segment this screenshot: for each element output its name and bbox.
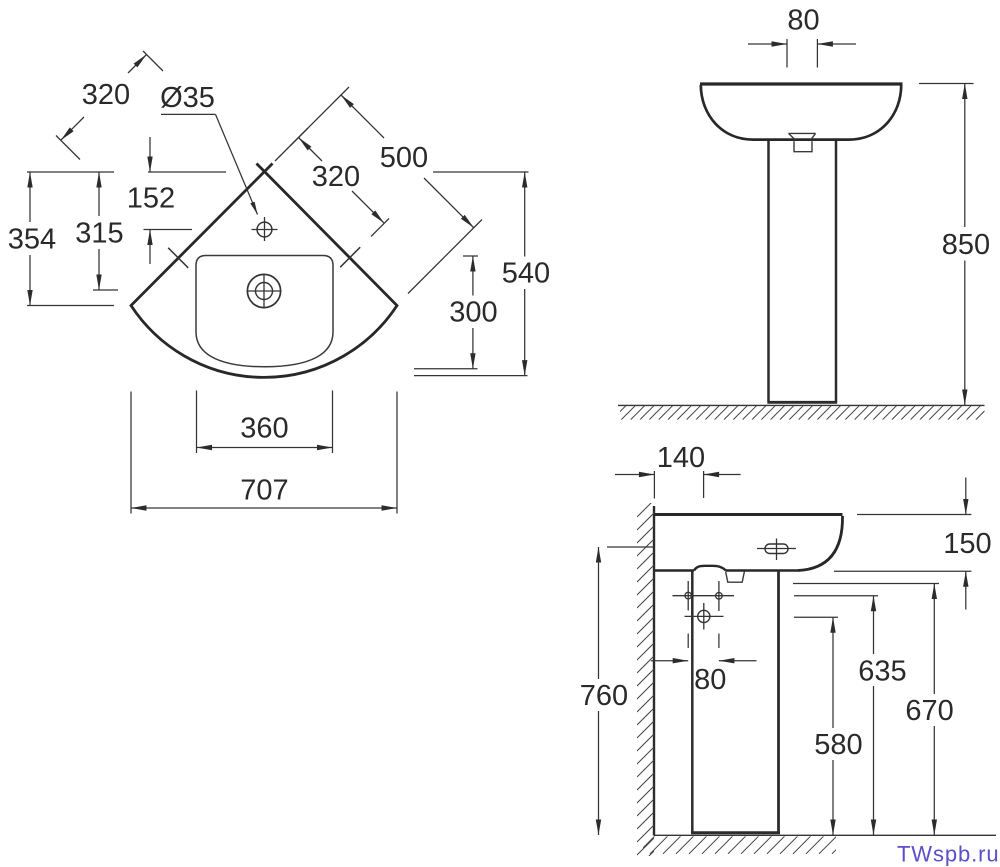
dimension 150 arrows — [963, 478, 968, 610]
witness line at apex level (mid, for 152) — [148, 171, 226, 173]
svg-text:707: 707 — [240, 475, 288, 507]
dimension 320 left: witness tick near bottom — [56, 136, 80, 160]
side view: drain hole crosshair — [685, 603, 724, 630]
side view: floor line — [654, 834, 996, 836]
top view: drain hole crosshair — [247, 274, 282, 309]
side view: fixing hole 2 — [716, 581, 723, 611]
svg-text:540: 540 — [502, 258, 550, 290]
dimension 360 line+arrows — [197, 445, 333, 450]
svg-text:152: 152 — [127, 183, 175, 215]
dimension 140: arrows — [615, 472, 741, 477]
dimension 80 front: witness lines — [787, 39, 817, 68]
side view: underside hump (overflow) — [694, 566, 726, 571]
dimension 670: top witness — [793, 583, 939, 585]
side view: faucet hole crosshair — [757, 539, 796, 561]
front view: floor hatching — [612, 406, 990, 420]
front view: basin bowl profile — [701, 85, 901, 140]
svg-text:760: 760 — [580, 680, 628, 712]
front view: pedestal bottom edge — [767, 401, 837, 404]
front view: drain outlet box — [794, 141, 812, 151]
dimension 80 front: arrows — [748, 41, 856, 46]
dimension 635 line+arrows — [871, 596, 876, 835]
dimension 540: top witness — [433, 171, 529, 173]
side view: floor hatching — [637, 836, 850, 854]
side view: fixing hole 1 — [685, 581, 692, 611]
leader Ø35 line — [161, 114, 258, 214]
svg-text:500: 500 — [380, 142, 428, 174]
dimension 320 left: witness tick near top — [143, 51, 163, 71]
dimension 850: top witness — [919, 83, 974, 85]
dimension 320 right: witness tick bottom — [371, 219, 389, 237]
dimension 760: top witness — [607, 546, 654, 548]
dimension 320 right: witness tick top — [290, 128, 308, 146]
svg-text:300: 300 — [449, 297, 497, 329]
side view: basin underside right — [726, 569, 799, 572]
witness line at left corner level — [27, 305, 114, 307]
side view: basin underside left — [654, 569, 694, 572]
dimension 760 line+arrows — [596, 547, 601, 835]
dimension 150: top witness — [857, 514, 971, 516]
side view: basin top surface — [654, 513, 843, 516]
svg-text:320: 320 — [312, 161, 360, 193]
front view: floor line — [618, 404, 985, 406]
dimension 150: bottom witness — [834, 570, 971, 572]
front view: pedestal right edge — [835, 141, 838, 402]
side view: basin right profile — [798, 516, 843, 571]
dimension 580: top witness — [794, 616, 838, 618]
dimension 707: right witness — [396, 392, 398, 514]
top view: faucet hole crosshair — [252, 217, 278, 241]
dimension 500: witness from apex — [275, 87, 349, 161]
dimension 300: bottom witness — [414, 368, 478, 370]
top view: inner basin outline — [196, 256, 333, 367]
dimension 540: bottom witness — [414, 375, 528, 377]
side view: pedestal back edge — [691, 571, 694, 833]
dimension 670 line+arrows — [932, 584, 937, 836]
side view: wall line — [653, 506, 655, 836]
dimension 635: top witness — [794, 595, 878, 597]
front view: basin top edge — [700, 82, 903, 85]
front view: pedestal left edge — [767, 141, 770, 402]
dimension 315 line+arrows — [96, 172, 101, 290]
side view: drain fitting trapezoid — [726, 572, 745, 583]
dimension 360: left witness — [196, 391, 198, 454]
svg-text:850: 850 — [942, 229, 990, 261]
dimension 320 right line+arrows — [299, 138, 385, 224]
dimension 80 side: witness lines — [688, 634, 719, 649]
svg-text:360: 360 — [240, 413, 288, 445]
svg-text:150: 150 — [943, 528, 991, 560]
witness line at drain level (315) — [93, 289, 118, 291]
dimension 300 line+arrows — [470, 256, 475, 369]
svg-text:354: 354 — [8, 224, 56, 256]
dimension 580 line+arrows — [830, 617, 835, 835]
dimension 850 line+arrows — [962, 84, 967, 406]
dimension 354 line+arrows — [27, 172, 32, 306]
top view: tick on left rim (320 mark) — [168, 248, 188, 268]
dimension 500: witness from right corner — [408, 220, 482, 294]
dimension 80 side: arrows — [651, 658, 757, 663]
svg-text:80: 80 — [787, 5, 819, 37]
svg-text:635: 635 — [858, 655, 906, 687]
dimension 152 arrows — [147, 137, 152, 264]
svg-text:580: 580 — [814, 729, 862, 761]
dimension 500 line+arrows — [341, 95, 474, 228]
dimension 360: right witness — [332, 391, 334, 454]
svg-text:320: 320 — [82, 79, 130, 111]
dimension 707: left witness — [130, 392, 132, 514]
dimension 707 line+arrows — [131, 505, 397, 510]
side view: pedestal front edge — [777, 571, 780, 833]
top view: tick on right rim (320 mark) — [340, 247, 360, 267]
front view: drain fitting trapezoid — [789, 133, 816, 139]
svg-text:670: 670 — [905, 695, 953, 727]
svg-text:315: 315 — [75, 218, 123, 250]
svg-text:Ø35: Ø35 — [160, 82, 215, 114]
top view: outer rim of corner basin — [131, 164, 397, 378]
svg-text:140: 140 — [657, 442, 705, 474]
dimension 140: witness lines — [654, 471, 703, 499]
dimension 320 left line+arrows — [61, 55, 147, 141]
dimension 540 line+arrows — [522, 172, 527, 376]
dimension 300: top witness tick — [463, 255, 478, 257]
side view: pedestal bottom edge — [691, 831, 780, 834]
side view: wall hatching — [637, 500, 654, 867]
svg-text:80: 80 — [694, 664, 726, 696]
side view: fixing holes crosshair line — [673, 595, 735, 597]
witness line at faucet level (152) — [144, 229, 193, 231]
witness line at apex level (left) — [27, 171, 114, 173]
svg-text:TWspb.ru: TWspb.ru — [897, 842, 1000, 867]
